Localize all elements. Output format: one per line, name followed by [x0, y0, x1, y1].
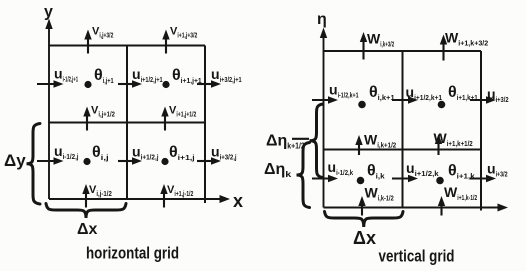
- right grid middle vertical line: [402, 51, 404, 208]
- v arrow v_i,j-1/2: [82, 184, 89, 208]
- label w_i,k+1/2: [364, 132, 396, 150]
- label w_i,k+3/2: [367, 31, 394, 49]
- label Δη_k+1/2: [266, 133, 305, 151]
- svg-text:η: η: [317, 11, 327, 28]
- right grid top line: [324, 50, 482, 52]
- left grid right vertical line: [204, 46, 206, 204]
- u arrow u_i-1/2,j+1: [37, 80, 64, 87]
- label u_i+1/2,k: [406, 160, 439, 178]
- w arrow w_i+1,k+3/2: [440, 35, 447, 61]
- left grid top line: [49, 45, 205, 47]
- theta node θ_i+1,j: [161, 158, 168, 165]
- label θ_i+1,j: [169, 144, 195, 162]
- Δx brace (left diagram): [46, 204, 126, 219]
- label Δx (right diagram): [353, 228, 376, 248]
- Δx brace (right diagram): [325, 212, 404, 228]
- label w_i,k-1/2: [365, 185, 394, 203]
- u arrow u_i+3/2,j+1: [197, 80, 221, 87]
- label Δy: [4, 151, 26, 170]
- label θ_i+1,j+1: [172, 67, 202, 85]
- label u_i-1/2,j: [54, 143, 79, 161]
- label w_i+1,k+3/2: [445, 30, 488, 48]
- η-axis: [320, 28, 327, 208]
- u arrow u_i-1/2,j: [37, 157, 64, 164]
- svg-text:Δy: Δy: [4, 151, 26, 170]
- label θ_i+1,k+1: [448, 84, 478, 102]
- svg-text:horizontal grid: horizontal grid: [86, 244, 179, 263]
- svg-text:y: y: [44, 4, 53, 21]
- label u_i+1/2,k+1: [406, 84, 443, 102]
- label u_i+3/2,j+1: [211, 66, 242, 84]
- Δη_k+1/2 brace: [310, 104, 324, 178]
- v arrow v_i,j+3/2: [84, 30, 91, 54]
- right grid right vertical line: [480, 51, 482, 211]
- label v_i+1,j-1/2: [167, 184, 193, 198]
- v arrow v_i+1,j-1/2: [160, 184, 167, 208]
- label u_i-1/2,k: [328, 159, 354, 177]
- left grid middle line: [49, 122, 205, 124]
- u arrow u_i+1/2,j+1: [118, 80, 142, 87]
- svg-text:vertical grid: vertical grid: [379, 247, 455, 266]
- theta node θ_i+1,j+1: [162, 81, 169, 88]
- right grid middle line: [324, 149, 482, 151]
- v arrow v_i,j+1/2: [83, 107, 90, 131]
- label θ_i,k: [367, 163, 385, 181]
- w arrow w_i+1,k+1/2: [435, 134, 442, 155]
- label Δx (left diagram): [77, 221, 98, 238]
- v arrow v_i+1,j+1/2: [161, 107, 168, 131]
- svg-text:x: x: [233, 191, 243, 211]
- label w_i+1,k+1/2: [434, 130, 473, 148]
- u arrow u_i-1/2,k+1: [312, 96, 338, 103]
- theta node θ_i,j: [83, 158, 90, 165]
- label w_i+1,k-1/2: [444, 184, 477, 202]
- u arrow u_i+1/2,k: [392, 175, 418, 182]
- caption vertical grid: [379, 247, 455, 266]
- u arrow u_i+1/2,j: [118, 157, 142, 164]
- v arrow v_i+1,j+3/2: [162, 30, 169, 54]
- label v_i,j+3/2: [92, 26, 113, 40]
- label u_i+3/2 (row k+1): [487, 86, 509, 104]
- label v_i+1,j+1/2: [169, 105, 196, 119]
- w arrow w_i,k-1/2: [358, 196, 365, 216]
- w arrow w_i+1,k-1/2: [438, 196, 445, 216]
- theta node θ_i+1,k+1: [438, 101, 446, 109]
- x-axis: [49, 195, 230, 203]
- right x-axis: [324, 204, 509, 212]
- theta node θ_i+1,k: [436, 177, 444, 185]
- svg-text:Δx: Δx: [77, 221, 98, 238]
- Δy brace: [27, 124, 41, 205]
- u arrow u_i-1/2,k: [312, 175, 338, 182]
- label v_i,j-1/2: [89, 184, 112, 198]
- label u_i+3/2 (row k): [487, 161, 508, 179]
- label v_i+1,j+3/2: [170, 26, 197, 40]
- label θ_i,j: [92, 144, 109, 162]
- label u_i+3/2,j: [211, 144, 237, 162]
- y-axis label y: [44, 4, 53, 21]
- label θ_i,j+1: [94, 67, 114, 85]
- label θ_i+1,k: [448, 163, 475, 181]
- caption horizontal grid: [86, 244, 179, 263]
- y-axis: [45, 19, 52, 200]
- theta node θ_i,k: [357, 177, 365, 185]
- theta node θ_i,j+1: [84, 81, 91, 88]
- u arrow u_i+3/2 (row k+1): [470, 96, 496, 103]
- η-axis label η: [317, 11, 327, 28]
- label u_i-1/2,k+1: [329, 82, 359, 100]
- u arrow u_i+1/2,k+1: [392, 96, 418, 103]
- w arrow w_i,k+1/2: [355, 135, 362, 155]
- label v_i,j+1/2: [91, 105, 115, 119]
- left grid middle vertical line: [126, 46, 128, 200]
- label u_i+1/2,j+1: [132, 66, 163, 84]
- w arrow w_i,k+3/2: [360, 32, 367, 60]
- label θ_i,k+1: [369, 84, 395, 102]
- u arrow u_i+3/2 (row k): [470, 175, 496, 182]
- Δη_k+1/2 leader line: [292, 138, 309, 140]
- svg-text:Δx: Δx: [353, 228, 376, 248]
- label Δη_k: [264, 161, 292, 179]
- x-axis label x: [233, 191, 243, 211]
- label u_i+1/2,j: [132, 144, 159, 162]
- u arrow u_i+3/2,j: [197, 157, 221, 164]
- Δη_k brace: [297, 143, 310, 208]
- label u_i-1/2,j+1: [54, 66, 78, 84]
- theta node θ_i,k+1: [358, 101, 366, 109]
